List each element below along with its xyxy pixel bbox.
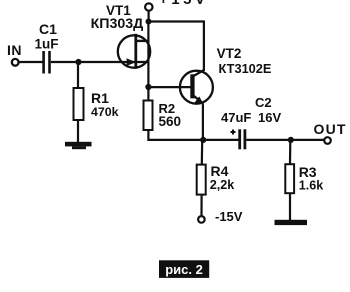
wire node A to R1 — [77, 62, 79, 88]
svg-text:1uF: 1uF — [35, 37, 59, 52]
label 1.6k — [299, 178, 325, 192]
resistor R1 — [74, 88, 84, 120]
label OUT — [314, 121, 347, 137]
label C1 — [39, 21, 57, 37]
svg-text:16V: 16V — [258, 110, 281, 125]
transistor VT2 (NPN) — [180, 70, 213, 105]
resistor R3 — [285, 164, 294, 193]
junction emitter node — [200, 137, 206, 143]
svg-text:-15V: -15V — [215, 209, 243, 224]
label 2,2k — [210, 178, 236, 192]
label КП303Д — [91, 16, 144, 32]
junction source node B — [145, 84, 151, 90]
label C2 — [255, 95, 272, 110]
node +15V terminal — [145, 3, 152, 10]
svg-text:R4: R4 — [211, 163, 229, 179]
svg-text:R3: R3 — [299, 164, 317, 180]
label R1 — [91, 90, 109, 106]
label 1uF — [35, 37, 59, 52]
wire emitter node to R4 — [201, 140, 204, 165]
label +15V (cut off at top) — [159, 0, 208, 8]
ground under R1 — [65, 142, 92, 149]
svg-text:47uF: 47uF — [221, 110, 251, 125]
node IN terminal — [12, 59, 19, 66]
svg-text:рис. 2: рис. 2 — [165, 262, 203, 277]
label R2 — [159, 101, 176, 116]
label VT2 — [217, 46, 242, 61]
wire R4 to -15V — [200, 195, 202, 217]
wire +15V to junction — [148, 11, 150, 22]
svg-text:VT2: VT2 — [217, 46, 242, 61]
capacitor C1 — [44, 51, 50, 74]
caption box рис. 2 — [159, 260, 209, 278]
wire R3 to ground — [289, 193, 291, 220]
wire IN to C1 — [19, 61, 43, 63]
wire node B to VT2 base — [148, 86, 191, 88]
wire +15V junction to VT2 collector (top run) — [148, 22, 204, 71]
label 47uF 16V — [221, 110, 281, 125]
label R4 — [211, 163, 229, 179]
resistor R2 — [144, 101, 153, 131]
wire VT2 emitter down — [202, 104, 204, 141]
transistor VT1 (JFET) — [118, 34, 150, 69]
svg-text:+15V: +15V — [159, 0, 208, 8]
label 560 — [159, 114, 182, 129]
label R3 — [299, 164, 317, 180]
svg-text:IN: IN — [7, 42, 22, 58]
label -15V — [215, 209, 243, 224]
label КТ3102Е — [219, 61, 272, 76]
junction OUT node — [288, 137, 294, 143]
svg-text:КП303Д: КП303Д — [91, 16, 144, 32]
capacitor C2 — [231, 129, 245, 149]
label VT1 — [106, 3, 131, 18]
node OUT terminal — [324, 137, 331, 144]
wire main vertical (drain/source rail) — [147, 22, 149, 101]
resistor R4 — [197, 165, 206, 195]
svg-text:470k: 470k — [91, 105, 119, 119]
junction +15V node — [146, 19, 152, 25]
node -15V terminal — [198, 216, 205, 223]
svg-text:C2: C2 — [255, 95, 272, 110]
svg-text:2,2k: 2,2k — [210, 178, 236, 192]
label IN — [7, 42, 22, 58]
svg-text:1.6k: 1.6k — [299, 178, 325, 192]
wire C2 to OUT — [246, 139, 324, 141]
wire R2 bottom to emitter rail — [148, 131, 238, 140]
junction node A (gate / R1) — [75, 59, 81, 65]
wire OUT node to R3 — [289, 140, 291, 164]
svg-text:560: 560 — [159, 114, 182, 129]
svg-text:КТ3102Е: КТ3102Е — [219, 61, 272, 76]
svg-text:R1: R1 — [91, 90, 109, 106]
wire C1 to VT1 gate (through node A) — [51, 61, 148, 63]
svg-text:C1: C1 — [39, 21, 57, 37]
wire R1 to ground — [77, 121, 79, 144]
ground under R3 — [275, 220, 308, 225]
label 470k — [91, 105, 119, 119]
svg-text:OUT: OUT — [314, 121, 347, 137]
